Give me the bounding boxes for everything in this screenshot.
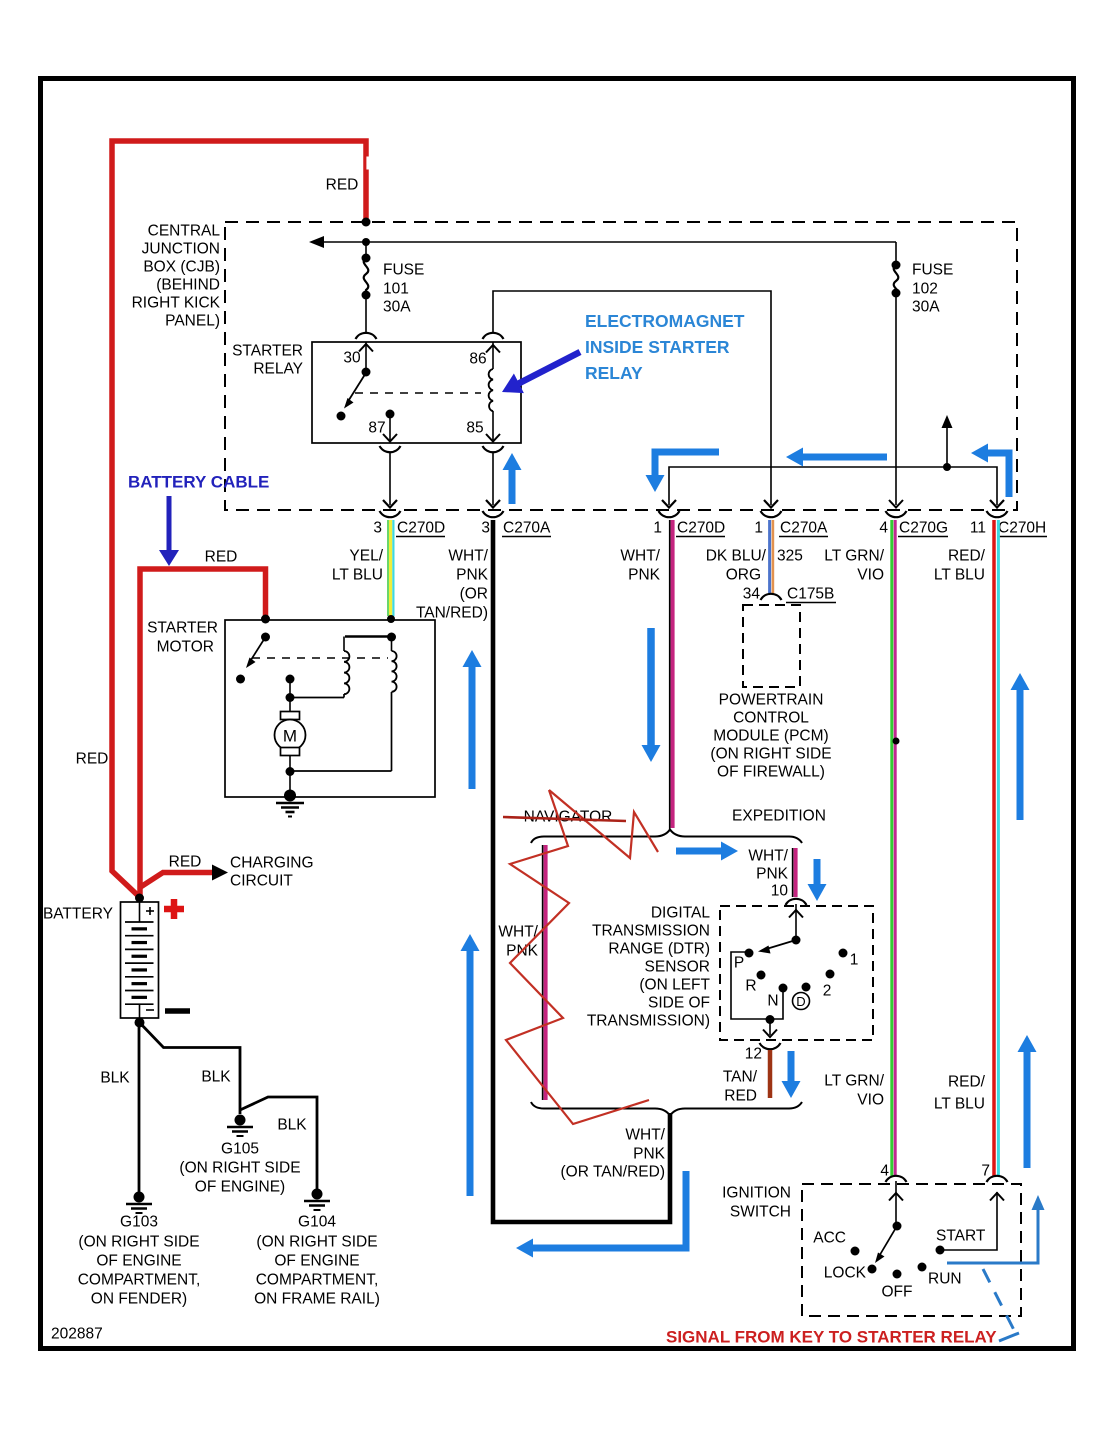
node battery feed junction [362,218,371,227]
ground starter motor [276,790,304,817]
DTR input wire [789,904,803,940]
relay box starter relay [312,342,521,443]
svg-text:G105: G105 [221,1141,259,1158]
label CENTRAL JUNCTION BOX [132,223,221,330]
svg-text:VIO: VIO [857,1092,884,1109]
label IGNITION SWITCH [722,1185,791,1221]
svg-text:1: 1 [653,520,662,537]
ignition contact ACC [813,1230,859,1256]
flow arrow left-up (C270H) [971,444,1009,498]
svg-text:C175B: C175B [787,586,834,603]
svg-text:RANGE (DTR): RANGE (DTR) [608,941,710,958]
svg-text:WHT/: WHT/ [620,548,660,565]
wire BLK to G104 [240,1097,317,1190]
svg-text:DIGITAL: DIGITAL [651,905,711,922]
svg-text:3: 3 [373,520,382,537]
svg-text:TAN/RED): TAN/RED) [416,605,488,622]
svg-text:RELAY: RELAY [585,363,643,383]
svg-text:ON FENDER): ON FENDER) [91,1291,187,1308]
label 3 C270D [373,520,445,537]
svg-text:(BEHIND: (BEHIND [156,277,220,294]
label YEL/LT BLU [332,548,384,584]
wire relay coil 86 to C270A-1 [493,291,778,508]
connector DTR pin 10 [786,899,807,905]
svg-text:C270D: C270D [677,520,725,537]
flow arrow down (DTR 10) [808,859,827,901]
flow arrow left (DTR return) [516,1171,686,1258]
label STARTER RELAY [232,343,303,378]
label 1 C270D [653,520,725,537]
svg-text:G104: G104 [298,1214,336,1231]
label G103 [78,1214,201,1308]
label POWERTRAIN CONTROL MODULE [710,692,831,781]
svg-text:BATTERY CABLE: BATTERY CABLE [128,473,269,492]
label CHARGING CIRCUIT [230,855,314,890]
svg-text:10: 10 [771,883,789,900]
svg-text:BLK: BLK [201,1069,231,1086]
label 3 C270A [481,520,551,537]
battery B1 [43,894,159,1028]
signal arrow key to relay [947,1195,1045,1263]
label STARTER MOTOR [147,620,218,656]
wire RED to charging circuit [139,865,228,889]
label 202887 [51,1326,103,1343]
label WHT/PNK (C270D-1) [620,548,660,584]
label WHT/PNK (OR TAN/RED) upper [416,548,489,622]
svg-text:POWERTRAIN: POWERTRAIN [719,692,824,709]
svg-text:RED/: RED/ [948,1074,986,1091]
wire CJB feed bus [309,236,896,248]
wire BLK to G103 [138,1022,141,1192]
svg-text:C270H: C270H [998,520,1046,537]
ignition contact START [936,1228,986,1255]
DTR contact D [793,983,811,1010]
svg-text:CIRCUIT: CIRCUIT [230,873,293,890]
label FUSE 101 30A [383,262,424,316]
connector bump x=669 [659,511,680,517]
svg-text:JUNCTION: JUNCTION [142,241,220,258]
flow arrow up (C270A-3) [503,453,522,504]
svg-text:M: M [283,727,297,746]
label pin 30 [343,350,361,367]
svg-text:LT GRN/: LT GRN/ [824,1073,884,1090]
svg-text:3: 3 [481,520,490,537]
svg-text:C270A: C270A [780,520,828,537]
svg-text:12: 12 [745,1046,762,1063]
relay switch contact [337,368,371,421]
fuse F102 30A [889,242,903,508]
brace top [531,830,802,844]
wire YEL/LT BLU (relay 87 to starter motor) [388,520,393,616]
battery cable pointer arrow [159,496,179,566]
svg-text:OF FIREWALL): OF FIREWALL) [717,764,825,781]
label RED (starter feed) [205,549,238,566]
label WHT/PNK 10 expedition [748,848,788,900]
svg-text:PNK: PNK [633,1146,666,1163]
label SIGNAL FROM KEY TO STARTER RELAY [666,1328,997,1347]
label LT GRN/VIO lower [824,1073,884,1109]
label G104 [254,1214,380,1308]
svg-text:RUN: RUN [928,1271,962,1288]
svg-text:G103: G103 [120,1214,158,1231]
svg-text:YEL/: YEL/ [349,548,383,565]
svg-text:ORG: ORG [726,567,761,584]
label NAVIGATOR [524,809,613,826]
wire WHT/PNK (OR TAN/RED) black run [493,520,670,1222]
svg-text:FUSE: FUSE [912,262,953,279]
label EXPEDITION [732,808,826,825]
wire LT GRN/VIO (C270G-4 to ignition) [892,520,900,1176]
svg-text:BOX (CJB): BOX (CJB) [143,259,220,276]
flow arrow down (DTR 12) [782,1051,801,1098]
scribble zigzag (navigator wire highlight) [506,790,658,1124]
wire RED/LT BLU (C270H-11 to ignition) [994,520,998,1176]
DTR selector lever [758,936,801,954]
svg-text:LT GRN/: LT GRN/ [824,548,884,565]
svg-text:4: 4 [880,1163,889,1180]
DTR contact 1 [839,949,859,969]
label WHT/PNK navigator [498,924,538,960]
flow arrow left (CJB bus) [786,448,887,467]
svg-text:325: 325 [777,548,803,565]
ground G103 [126,1192,152,1214]
svg-text:C270D: C270D [397,520,445,537]
svg-text:30A: 30A [912,299,940,316]
starter motor box [225,620,435,797]
flow arrow right (to expedition) [676,842,738,861]
svg-text:SIDE OF: SIDE OF [648,995,710,1012]
DTR sensor box (dashed) [720,906,873,1040]
starter solenoid switch [236,615,270,684]
svg-text:SIGNAL FROM KEY TO STARTER REL: SIGNAL FROM KEY TO STARTER RELAY [666,1328,997,1347]
label RED (battery cable left) [76,751,109,768]
svg-text:DK BLU/: DK BLU/ [706,548,767,565]
svg-text:102: 102 [912,281,938,298]
label BLK (G103) [100,1070,130,1087]
svg-text:RED: RED [724,1088,757,1105]
starter dashed link [252,657,388,659]
connector bump x=896 [886,511,907,517]
svg-text:OFF: OFF [882,1284,913,1301]
connector bump x=771 [761,511,782,517]
connector bump x=493 [483,511,504,517]
svg-text:RIGHT KICK: RIGHT KICK [132,295,221,312]
svg-text:ELECTROMAGNET: ELECTROMAGNET [585,311,745,331]
svg-text:WHT/: WHT/ [448,548,488,565]
DTR contact 2 [823,970,835,1000]
ignition contact RUN [918,1263,962,1288]
svg-text:CENTRAL: CENTRAL [148,223,221,240]
wire WHT/PNK navigator branch [543,845,546,1100]
svg-text:(ON RIGHT SIDE: (ON RIGHT SIDE [179,1160,300,1177]
label DK BLU/ORG 325 [706,548,803,584]
relay dashed actuator link [355,392,481,394]
svg-text:WHT/: WHT/ [748,848,788,865]
svg-text:N: N [767,993,778,1010]
wire TAN/RED pin 12 [768,1050,773,1098]
wire WHT/PNK (C270D-1 to brace) [670,520,673,831]
svg-text:EXPEDITION: EXPEDITION [732,808,826,825]
svg-text:VIO: VIO [857,567,884,584]
ignition contact OFF [882,1270,913,1301]
battery + symbol [164,899,184,919]
label pin 85 [466,420,483,437]
fuse F101 30A [362,242,371,334]
label RED top [326,177,359,194]
svg-text:87: 87 [368,420,385,437]
svg-text:101: 101 [383,281,409,298]
svg-text:RED: RED [76,751,109,768]
label BLK (G104) [277,1117,307,1134]
wire RED starter motor feed [140,569,266,897]
signal dashed pointer [983,1269,1019,1341]
svg-text:LOCK: LOCK [824,1265,867,1282]
svg-text:2: 2 [823,983,832,1000]
starter field coil 2 [290,637,397,772]
relay pin 87 wire [380,414,401,508]
relay contact 87 [368,410,394,437]
brace bottom [531,1102,802,1116]
svg-text:R: R [745,978,756,995]
ignition contact LOCK [824,1265,867,1282]
connector bump x=390 [380,511,401,517]
svg-text:4: 4 [879,520,888,537]
svg-text:11: 11 [970,520,986,537]
label 4 C270G [879,520,948,537]
label 12 TAN/RED [723,1046,762,1105]
svg-text:MODULE (PCM): MODULE (PCM) [713,728,828,745]
label FUSE 102 30A [912,262,953,316]
svg-text:1: 1 [754,520,763,537]
svg-text:(ON RIGHT SIDE: (ON RIGHT SIDE [78,1234,199,1251]
svg-text:RED: RED [169,854,202,871]
label 11 C270H [970,520,1047,537]
ignition START output wire [940,1192,1004,1250]
flow arrow up (C270A run upper) [463,650,482,789]
svg-text:(OR TAN/RED): (OR TAN/RED) [561,1164,665,1181]
central junction box CJB (dashed) [225,222,1017,510]
label BATTERY CABLE [128,473,269,492]
label RED/LT BLU upper [934,548,986,584]
svg-text:BATTERY: BATTERY [43,906,113,923]
battery - symbol [165,1008,190,1014]
label pin 86 [469,351,486,368]
scribble NAVIGATOR strike [503,817,626,821]
DTR internal wiring [731,952,783,1024]
svg-text:SWITCH: SWITCH [730,1204,791,1221]
label G105 [179,1141,300,1196]
svg-text:WHT/: WHT/ [625,1127,665,1144]
svg-text:D: D [796,994,805,1009]
svg-text:OF ENGINE: OF ENGINE [96,1253,181,1270]
svg-text:MOTOR: MOTOR [157,639,214,656]
label 34 C175B [743,586,836,603]
svg-text:LT BLU: LT BLU [934,567,985,584]
svg-text:START: START [936,1228,986,1245]
label LT GRN/VIO upper [824,548,884,584]
ground G104 [304,1189,330,1211]
relay coil pins 86/85 [483,333,504,508]
svg-text:ACC: ACC [813,1230,846,1247]
svg-text:PNK: PNK [756,866,789,883]
electromagnet pointer arrow [502,352,580,393]
label WHT/PNK (OR TAN/RED) lower [561,1127,666,1181]
DTR contact P [734,949,754,972]
label RED/LT BLU lower [934,1074,986,1113]
label ELECTROMAGNET INSIDE STARTER RELAY [585,311,745,383]
svg-text:202887: 202887 [51,1326,103,1343]
svg-text:TAN/: TAN/ [723,1069,758,1086]
flow arrow up (C270A run lower) [461,934,480,1196]
svg-text:IGNITION: IGNITION [722,1185,791,1202]
ignition key lever [868,1222,902,1274]
wire DK BLU/ORG 325 [770,520,773,593]
svg-text:LT BLU: LT BLU [934,1096,985,1113]
ignition input wire [889,1181,903,1226]
DTR output wire [760,1019,781,1049]
flow arrow up RED/LT BLU lower [1018,1035,1037,1168]
svg-text:7: 7 [981,1163,990,1180]
svg-text:TRANSMISSION: TRANSMISSION [592,923,710,940]
connector ignition pin 7 [981,1163,1007,1183]
svg-text:SENSOR: SENSOR [645,959,710,976]
svg-text:RELAY: RELAY [253,361,303,378]
wire WHT/PNK expedition branch [793,848,796,897]
svg-text:ON FRAME RAIL): ON FRAME RAIL) [254,1291,380,1308]
svg-text:86: 86 [469,351,486,368]
svg-text:(OR: (OR [460,586,488,603]
ground G105 [227,1115,253,1137]
svg-text:P: P [734,955,744,972]
connector bump x=997 [987,511,1008,517]
svg-text:COMPARTMENT,: COMPARTMENT, [78,1272,201,1289]
svg-text:C270G: C270G [899,520,948,537]
svg-text:PANEL): PANEL) [165,313,220,330]
svg-text:STARTER: STARTER [232,343,303,360]
label RED (charging) [169,854,202,871]
svg-text:STARTER: STARTER [147,620,218,637]
wire battery cable RED (battery to fuse 101) [112,141,370,897]
svg-text:LT BLU: LT BLU [332,567,383,584]
svg-text:OF ENGINE): OF ENGINE) [195,1179,285,1196]
svg-text:(ON RIGHT SIDE: (ON RIGHT SIDE [710,746,831,763]
label DIGITAL TRANSMISSION RANGE SENSOR [587,905,711,1030]
wire lower CJB bus [662,415,1004,508]
svg-text:(ON LEFT: (ON LEFT [639,977,710,994]
ignition switch box (dashed) [802,1184,1021,1316]
svg-text:RED: RED [326,177,359,194]
svg-text:BLK: BLK [277,1117,307,1134]
DTR contact N [767,984,787,1010]
svg-text:COMPARTMENT,: COMPARTMENT, [256,1272,379,1289]
svg-text:OF ENGINE: OF ENGINE [274,1253,359,1270]
starter field coil 1 [290,637,349,698]
svg-text:85: 85 [466,420,483,437]
svg-text:TRANSMISSION): TRANSMISSION) [587,1013,710,1030]
DTR contact R [745,971,765,995]
svg-text:PNK: PNK [628,567,661,584]
flow arrow up RED/LT BLU upper [1011,673,1030,820]
svg-text:34: 34 [743,586,761,603]
svg-text:RED: RED [205,549,238,566]
module PCM (dashed) [743,605,800,687]
wire BLK to G105 [139,1022,240,1114]
svg-text:(ON RIGHT SIDE: (ON RIGHT SIDE [256,1234,377,1251]
svg-text:C270A: C270A [503,520,551,537]
svg-text:BLK: BLK [100,1070,130,1087]
starter yel wire entry [345,615,396,642]
svg-text:CHARGING: CHARGING [230,855,314,872]
svg-text:RED/: RED/ [948,548,986,565]
svg-text:30A: 30A [383,299,411,316]
svg-text:WHT/: WHT/ [498,924,538,941]
flow arrow down WHT/PNK [642,628,661,762]
relay pin 30 entry [356,333,377,372]
label 1 C270A [754,520,828,537]
svg-text:INSIDE STARTER: INSIDE STARTER [585,337,730,357]
svg-text:30: 30 [343,350,361,367]
svg-text:CONTROL: CONTROL [733,710,809,727]
motor M armature [275,675,306,797]
label BLK (G105) [201,1069,231,1086]
connector ignition pin 4 [880,1163,906,1183]
svg-text:PNK: PNK [456,567,489,584]
svg-text:FUSE: FUSE [383,262,424,279]
svg-text:1: 1 [850,952,859,969]
connector C175B [761,594,782,600]
flow arrow down to C270D-1 [646,452,720,492]
